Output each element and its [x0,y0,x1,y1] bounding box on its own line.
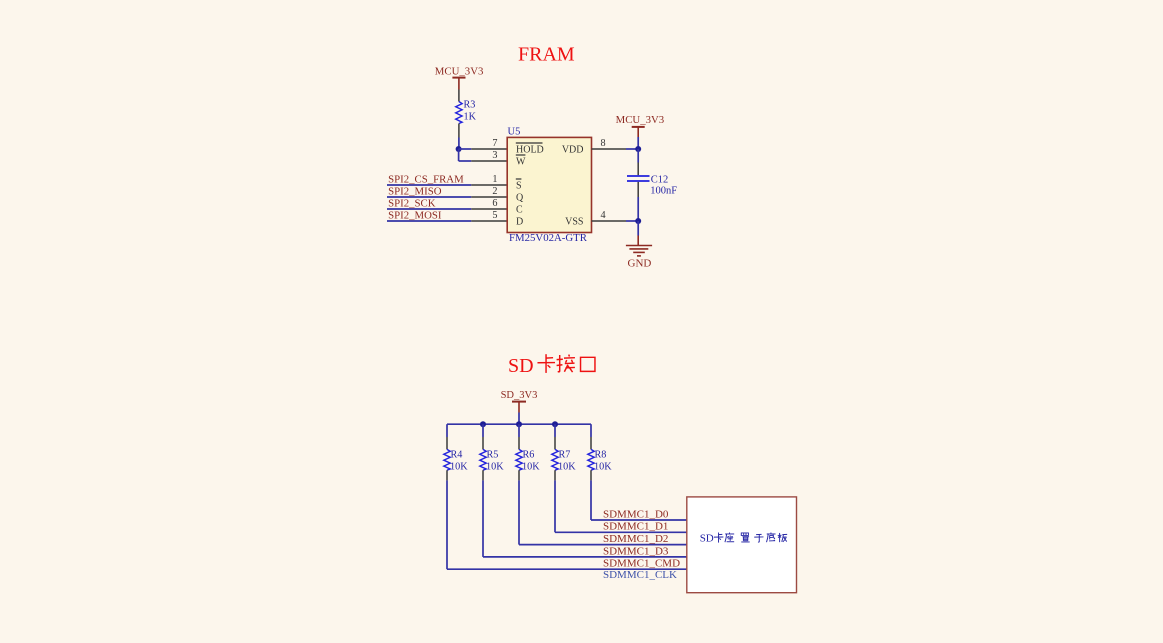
svg-text:SDMMC1_D2: SDMMC1_D2 [603,533,668,545]
svg-text:R3: R3 [464,100,476,111]
svg-text:SDMMC1_CLK: SDMMC1_CLK [603,569,677,581]
svg-text:3: 3 [492,150,497,161]
svg-text:10K: 10K [486,462,504,473]
svg-text:2: 2 [492,186,497,197]
svg-text:W: W [516,156,526,167]
svg-text:D: D [516,216,523,227]
svg-text:R8: R8 [595,450,607,461]
svg-text:VSS: VSS [565,216,583,227]
svg-text:1K: 1K [464,111,477,122]
svg-text:HOLD: HOLD [516,144,544,155]
svg-text:10K: 10K [450,462,468,473]
svg-text:R7: R7 [559,450,571,461]
svg-text:7: 7 [492,138,497,149]
svg-text:U5: U5 [508,127,521,138]
svg-text:6: 6 [492,198,497,209]
svg-text:4: 4 [601,210,606,221]
svg-text:FM25V02A-GTR: FM25V02A-GTR [509,232,588,244]
svg-text:C: C [516,204,523,215]
svg-text:SDMMC1_CMD: SDMMC1_CMD [603,558,680,570]
svg-text:10K: 10K [558,462,576,473]
svg-text:R4: R4 [451,450,463,461]
svg-text:R5: R5 [487,450,499,461]
svg-text:FRAM: FRAM [518,44,575,66]
svg-text:SPI2_SCK: SPI2_SCK [388,198,436,210]
svg-text:5: 5 [492,210,497,221]
svg-text:10K: 10K [594,462,612,473]
svg-text:10K: 10K [522,462,540,473]
svg-text:1: 1 [492,174,497,185]
svg-text:SDMMC1_D1: SDMMC1_D1 [603,521,668,533]
svg-text:SDMMC1_D0: SDMMC1_D0 [603,508,669,520]
svg-text:SD: SD [700,533,714,545]
svg-text:S: S [516,180,522,191]
svg-text:SD_3V3: SD_3V3 [501,390,538,401]
svg-text:C12: C12 [651,174,669,185]
svg-text:MCU_3V3: MCU_3V3 [435,66,484,78]
svg-text:VDD: VDD [562,144,584,155]
svg-text:SD: SD [508,355,534,377]
svg-text:GND: GND [628,257,652,269]
svg-text:Q: Q [516,192,524,203]
svg-text:MCU_3V3: MCU_3V3 [616,114,665,126]
svg-text:SPI2_MOSI: SPI2_MOSI [388,210,442,222]
svg-text:SDMMC1_D3: SDMMC1_D3 [603,545,669,557]
svg-text:SPI2_CS_FRAM: SPI2_CS_FRAM [388,174,464,186]
svg-text:R6: R6 [523,450,535,461]
svg-text:100nF: 100nF [650,185,677,196]
svg-text:8: 8 [601,138,606,149]
svg-text:SPI2_MISO: SPI2_MISO [388,186,442,198]
